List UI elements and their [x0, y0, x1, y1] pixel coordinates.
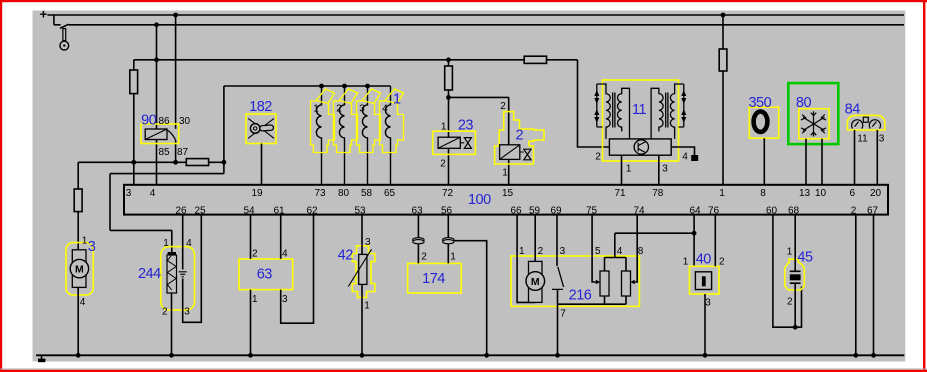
216 motor: [529, 261, 543, 302]
node + (battery positive): [0, 0, 1, 1]
svg-text:19: 19: [251, 188, 263, 199]
svg-text:1: 1: [441, 121, 447, 132]
svg-text:8: 8: [760, 188, 766, 199]
216 switch blade: [552, 267, 564, 290]
wire pin75 to pot wiper: [592, 215, 596, 282]
svg-text:4: 4: [186, 238, 192, 249]
spark gap arrows left: [597, 84, 603, 127]
svg-text:2: 2: [440, 159, 446, 170]
svg-text:1: 1: [683, 257, 689, 268]
spark gap arrows right: [679, 84, 684, 127]
svg-text:M: M: [75, 264, 84, 276]
svg-text:85: 85: [158, 147, 170, 158]
svg-text:61: 61: [273, 206, 285, 217]
svg-text:63: 63: [257, 267, 273, 283]
wire pin56 to 174 pin1: [447, 215, 449, 264]
svg-text:100: 100: [468, 192, 491, 208]
solenoid valve 23: [433, 118, 476, 170]
wire pin67 to ground: [873, 215, 875, 356]
transformer T2 secondary: [651, 88, 663, 139]
svg-text:62: 62: [306, 206, 318, 217]
relay 90: [141, 113, 190, 158]
wire fused feed rail: [134, 59, 578, 61]
svg-text:3: 3: [88, 239, 96, 255]
svg-text:90: 90: [141, 113, 157, 129]
svg-text:72: 72: [442, 188, 454, 199]
svg-text:3: 3: [879, 134, 885, 145]
svg-text:174: 174: [422, 271, 445, 287]
wire pin76 to 40: [714, 215, 716, 267]
component 350: [748, 95, 778, 138]
ignition coil 4: [385, 86, 390, 185]
wire relay coil 86 from switched bus: [156, 25, 158, 129]
ignition module 11: [594, 80, 698, 185]
fuse F6: [524, 56, 546, 63]
svg-text:56: 56: [441, 206, 453, 217]
svg-text:3: 3: [359, 104, 365, 115]
svg-text:5: 5: [595, 246, 601, 257]
wire ignition coil rail: [224, 85, 391, 87]
svg-text:84: 84: [845, 101, 861, 117]
transformer T1 secondary: [618, 88, 630, 139]
wire 80 to pin 10: [821, 139, 823, 185]
svg-text:87: 87: [177, 147, 189, 158]
battery disconnect switch S1: [60, 24, 69, 50]
svg-text:+: +: [40, 6, 48, 21]
wire 216 pin7 to ground: [557, 289, 559, 355]
svg-text:74: 74: [633, 206, 645, 217]
injector 2: [495, 101, 544, 179]
svg-text:64: 64: [689, 206, 701, 217]
svg-text:11: 11: [632, 102, 646, 118]
216 pot 1: [600, 271, 609, 296]
wire pin26 to 244 pin4: [182, 215, 184, 270]
42 resistor: [359, 254, 367, 284]
svg-text:216: 216: [569, 287, 592, 303]
transformer T1 core: [613, 93, 615, 128]
svg-text:80: 80: [338, 188, 350, 199]
svg-text:42: 42: [338, 248, 354, 264]
svg-text:1: 1: [502, 168, 508, 179]
svg-text:2: 2: [538, 246, 544, 257]
244 pin4 sensor bars: [179, 272, 187, 277]
svg-text:6: 6: [850, 188, 856, 199]
ECU bottom pin numbers: [175, 206, 878, 217]
svg-text:2: 2: [162, 307, 168, 318]
wire coil-rail feed jog: [110, 86, 224, 252]
ground bus: [36, 354, 904, 356]
svg-text:71: 71: [614, 188, 626, 199]
svg-text:1: 1: [519, 246, 525, 257]
module body: [609, 139, 671, 155]
transformer T1 primary: [597, 84, 610, 139]
216 pot bottoms: [558, 296, 627, 304]
wire pin74 to pot wiper: [634, 215, 637, 282]
svg-text:76: 76: [708, 206, 720, 217]
wire pin69 to 216 switch: [556, 215, 558, 266]
wire pin2 to ground: [855, 215, 857, 356]
wire pin59 to 216 motor: [534, 215, 536, 262]
svg-text:66: 66: [510, 206, 522, 217]
ground module 11: [691, 155, 698, 161]
svg-text:78: 78: [652, 188, 664, 199]
fuse F4: [186, 159, 208, 166]
transformer T2 primary: [670, 84, 683, 139]
fuse F5: [445, 66, 453, 90]
svg-text:80: 80: [796, 95, 812, 111]
svg-text:53: 53: [354, 206, 366, 217]
bus B+ top: [47, 14, 904, 16]
wire pin53 through 42 to ground: [361, 215, 363, 356]
wire 63 pin3 to pin62: [281, 215, 314, 324]
svg-text:58: 58: [361, 188, 373, 199]
svg-text:3: 3: [560, 246, 566, 257]
svg-text:11: 11: [857, 134, 868, 145]
wire relay contact 30 from B+ bus: [175, 15, 177, 129]
wire branch 56 to ground: [454, 241, 487, 356]
component 63: [239, 248, 293, 304]
svg-text:65: 65: [384, 188, 396, 199]
wire 80 to pin 13: [805, 139, 807, 185]
wire 84 to pin 20: [876, 130, 878, 185]
wire drop to switched bus: [53, 15, 55, 25]
svg-text:2: 2: [500, 101, 506, 112]
svg-text:73: 73: [314, 188, 326, 199]
svg-text:13: 13: [799, 188, 811, 199]
wire pin61 to 63: [280, 215, 282, 259]
svg-text:54: 54: [243, 206, 255, 217]
ground symbol: [41, 355, 43, 359]
svg-text:2: 2: [516, 127, 524, 143]
wire motor 3 to ground: [77, 287, 79, 355]
red border frame: [0, 0, 927, 2]
svg-text:1: 1: [393, 92, 401, 108]
svg-text:86: 86: [158, 116, 170, 127]
motor pump 3: [66, 236, 96, 309]
wire 182 to pin 19: [261, 144, 263, 185]
216 pot rail: [605, 233, 627, 271]
wire feed to module 11 pin2: [578, 60, 610, 147]
component 174: [408, 252, 462, 293]
component 80 A/C: [788, 83, 838, 144]
svg-text:1: 1: [787, 247, 793, 258]
svg-text:1: 1: [163, 238, 169, 249]
svg-text:63: 63: [411, 206, 423, 217]
wire relay 87 down: [175, 140, 177, 162]
wire 244 pin2 to ground: [171, 293, 173, 355]
wire 350 to pin 8: [763, 138, 765, 185]
wire pin54 to 63: [250, 215, 252, 259]
svg-text:2: 2: [595, 152, 601, 163]
ignition coil 2: [339, 86, 344, 185]
svg-text:3: 3: [184, 307, 190, 318]
wire fuse drop left: [133, 60, 135, 163]
wire module pin1 to ecu 71: [621, 155, 623, 185]
svg-text:20: 20: [870, 188, 882, 199]
wire pin64 branch to 216 pin4: [615, 215, 694, 267]
wire 244 pin3 to pin25: [183, 215, 202, 323]
svg-text:244: 244: [138, 266, 161, 282]
capacitor 45: [785, 215, 813, 328]
wire module pin4 to ground: [671, 147, 694, 155]
svg-text:7: 7: [560, 309, 566, 320]
wire pin3 drop: [133, 162, 135, 185]
svg-text:M: M: [531, 276, 540, 288]
svg-text:4: 4: [682, 152, 688, 163]
thermistor 42: [352, 246, 375, 298]
svg-text:15: 15: [502, 188, 514, 199]
wire module pin3 to ecu 78: [658, 155, 660, 185]
svg-text:4: 4: [150, 188, 156, 199]
svg-text:3: 3: [705, 298, 711, 309]
svg-text:2: 2: [421, 252, 427, 263]
svg-text:45: 45: [797, 249, 813, 265]
svg-text:4: 4: [80, 297, 86, 308]
svg-text:3: 3: [365, 237, 371, 248]
ignition coil 1: [316, 86, 321, 185]
component 182 ignition switch: [246, 99, 276, 144]
fuse F1: [74, 189, 82, 212]
svg-text:4: 4: [382, 104, 388, 115]
svg-text:1: 1: [313, 104, 319, 115]
wire pin63 to 174 pin2: [417, 215, 419, 264]
svg-text:3: 3: [282, 294, 288, 305]
svg-text:4: 4: [282, 248, 288, 259]
wire B+ fused drop to pin 1: [722, 15, 724, 185]
heater 244: [138, 238, 195, 317]
throttle body 216: [511, 246, 644, 320]
wire fused drop to 23: [448, 60, 450, 185]
diagnostic socket 40: [683, 251, 725, 308]
svg-text:2: 2: [252, 248, 258, 259]
svg-text:182: 182: [249, 99, 272, 115]
svg-text:40: 40: [696, 251, 712, 267]
svg-text:1: 1: [450, 252, 456, 263]
ECU top pin numbers: [126, 188, 882, 199]
svg-text:2: 2: [719, 257, 725, 268]
wire relay 87 rail: [78, 161, 224, 163]
svg-text:26: 26: [175, 206, 187, 217]
connector pin63 line: [413, 238, 454, 244]
svg-text:10: 10: [815, 188, 827, 199]
transformer T2 core: [666, 93, 668, 128]
ignition coil 3: [362, 86, 367, 185]
wire 84 to pin 6: [854, 130, 856, 185]
component 84 gauges: [845, 101, 885, 144]
svg-text:1: 1: [252, 294, 258, 305]
svg-text:30: 30: [179, 116, 191, 127]
svg-text:1: 1: [626, 164, 632, 175]
ECU 100: [124, 185, 888, 215]
svg-text:2: 2: [336, 104, 342, 115]
wire 40 pin3 to ground: [704, 294, 706, 355]
svg-text:1: 1: [364, 301, 370, 312]
wire branch to injector 2: [449, 97, 509, 184]
wire pin60 loop: [773, 215, 802, 328]
svg-text:8: 8: [638, 246, 644, 257]
svg-text:23: 23: [458, 118, 474, 134]
svg-text:3: 3: [662, 164, 668, 175]
bus switched (ignition): [54, 24, 904, 26]
coil outlines yellow: [311, 89, 404, 153]
fuse F3: [130, 70, 138, 94]
wire pin66 to 216 motor: [517, 215, 535, 303]
svg-text:25: 25: [194, 206, 206, 217]
svg-text:60: 60: [766, 206, 778, 217]
216 pot 2: [622, 271, 631, 296]
wire pin4 / relay 85: [156, 140, 158, 185]
wire 63 pin1 to ground: [250, 290, 252, 356]
svg-text:3: 3: [126, 188, 132, 199]
svg-text:1: 1: [719, 188, 725, 199]
wire motor feed drop: [77, 162, 79, 250]
svg-text:350: 350: [748, 95, 771, 111]
svg-text:2: 2: [787, 297, 793, 308]
svg-text:68: 68: [788, 206, 800, 217]
fuse F7: [719, 49, 727, 71]
svg-text:4: 4: [617, 246, 623, 257]
